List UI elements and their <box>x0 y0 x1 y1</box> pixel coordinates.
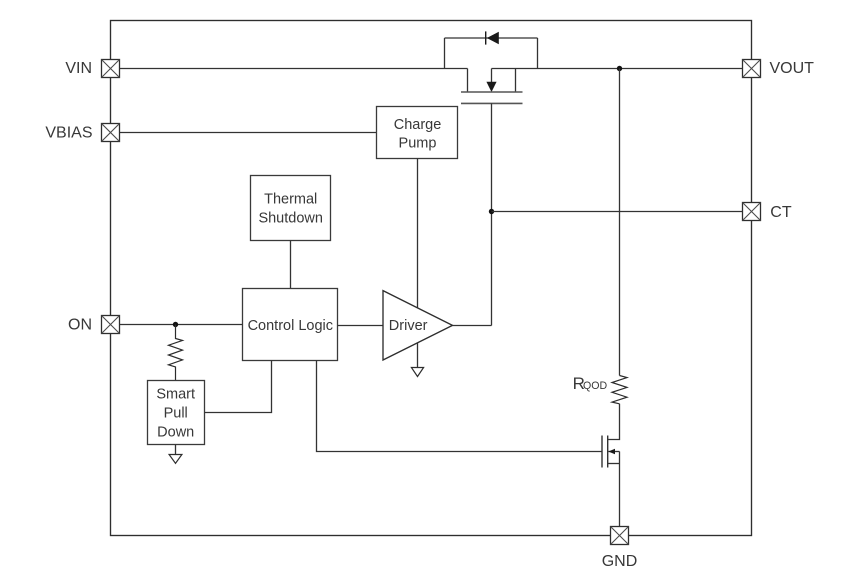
transistor Q2 source horizontal <box>608 463 620 465</box>
pin VBIAS <box>102 124 120 142</box>
svg-text:GND: GND <box>602 553 638 570</box>
node VOUT junction <box>617 66 622 71</box>
block Control Logic <box>243 289 338 361</box>
pin VOUT <box>743 60 761 78</box>
body diode D1 <box>486 31 499 44</box>
wire VBIAS to charge pump <box>120 132 377 134</box>
resistor RQOD <box>612 376 627 404</box>
svg-text:Down: Down <box>157 425 194 441</box>
wire smart pull down to control logic <box>205 361 272 413</box>
pass FET Q1 channel bar <box>461 91 523 93</box>
node ON junction <box>173 322 178 327</box>
wire thermal shutdown to control logic <box>290 241 292 289</box>
svg-text:Pull: Pull <box>164 406 188 422</box>
body diode loop wire right <box>537 38 539 69</box>
wire VOUT junction to RQOD <box>619 69 621 376</box>
svg-text:Thermal: Thermal <box>264 192 317 208</box>
block Thermal Shutdown <box>251 176 331 241</box>
svg-text:VOUT: VOUT <box>770 60 815 77</box>
ground (smart pull down) <box>169 455 182 464</box>
wire VIN to pass FET source <box>120 68 468 70</box>
wire ON pin to control logic <box>120 324 243 326</box>
wire charge pump to driver ground <box>417 159 419 368</box>
wire control logic to QOD gate <box>317 361 603 452</box>
pin VIN <box>102 60 120 78</box>
wire gate riser <box>491 103 493 325</box>
svg-text:Smart: Smart <box>156 387 195 403</box>
block Charge Pump <box>377 107 458 159</box>
pin ON <box>102 316 120 334</box>
transistor Q2 channel bar <box>607 436 609 468</box>
svg-text:VIN: VIN <box>65 60 92 77</box>
block Smart Pull Down <box>148 381 205 445</box>
svg-text:Pump: Pump <box>399 136 437 152</box>
pass FET Q1 gate bar <box>461 102 523 104</box>
svg-text:Shutdown: Shutdown <box>258 210 323 226</box>
svg-text:VBIAS: VBIAS <box>45 124 92 141</box>
svg-text:Control Logic: Control Logic <box>248 318 333 334</box>
wire pass FET drain to VOUT <box>492 68 743 70</box>
body diode loop wire left <box>444 38 446 69</box>
pin GND <box>611 527 629 545</box>
pass FET Q1 body connection with arrow <box>486 69 496 93</box>
wire smart pull down to ground <box>175 445 177 455</box>
wire driver output to gate riser <box>453 325 492 327</box>
svg-text:Driver: Driver <box>389 318 428 334</box>
wire CT <box>492 211 743 213</box>
pass FET Q1 source vertical <box>467 69 469 93</box>
svg-text:CT: CT <box>770 204 792 221</box>
wire QOD source to GND pin <box>619 452 621 527</box>
wire RQOD to QOD FET drain <box>608 404 620 440</box>
svg-text:QOD: QOD <box>583 380 607 392</box>
IC boundary box <box>111 21 752 536</box>
op-amp Driver <box>383 291 453 360</box>
resistor R1 (ON pull-down) <box>169 325 183 381</box>
svg-text:ON: ON <box>68 317 92 334</box>
wire control logic to driver input <box>338 325 384 327</box>
body diode loop wire top <box>445 37 538 39</box>
pin CT <box>743 203 761 221</box>
node CT junction <box>489 209 494 214</box>
svg-text:Charge: Charge <box>394 117 442 133</box>
label RQOD <box>573 374 608 393</box>
transistor Q2 (QOD NMOS) gate bar <box>601 436 603 468</box>
pass FET Q1 drain vertical <box>515 69 517 93</box>
transistor Q2 body connection with arrow <box>608 449 619 454</box>
ground (driver) <box>411 368 423 377</box>
